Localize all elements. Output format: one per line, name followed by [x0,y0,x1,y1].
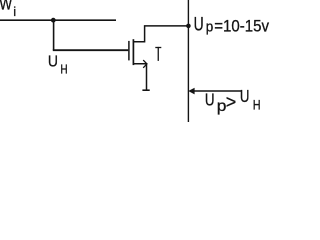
label Up=10-15v [194,13,270,36]
svg-text:U: U [48,53,58,71]
svg-text:W: W [0,0,13,14]
power rail Up vertical [187,0,189,122]
arrow Up greater than UH head [189,88,194,94]
transistor T source arrow [143,60,147,68]
arrow Up greater than UH line [193,90,241,92]
svg-text:H: H [253,97,261,113]
node junction input [51,18,56,23]
transistor T gate plate [128,41,130,61]
wire drain to rail [133,26,188,42]
wire input Wi horizontal [0,19,116,21]
terminal source T-bar [142,89,149,91]
wire junction to gate vertical [53,20,55,50]
node junction drain rail [186,24,191,29]
svg-text:U: U [194,13,204,35]
label Up greater than UH [205,87,261,114]
wire source lead [133,64,146,90]
svg-text:U: U [240,87,250,106]
svg-text:>: > [226,92,237,112]
svg-text:U: U [205,91,215,110]
transistor T channel [132,39,134,65]
node UH label [48,53,68,77]
svg-text:p: p [206,19,214,36]
transistor T label [155,47,161,61]
svg-text:H: H [60,62,67,77]
wire gate horizontal [53,49,129,51]
svg-text:i: i [13,4,16,19]
svg-text:=10-15v: =10-15v [214,18,269,36]
node Wi label [0,0,16,19]
